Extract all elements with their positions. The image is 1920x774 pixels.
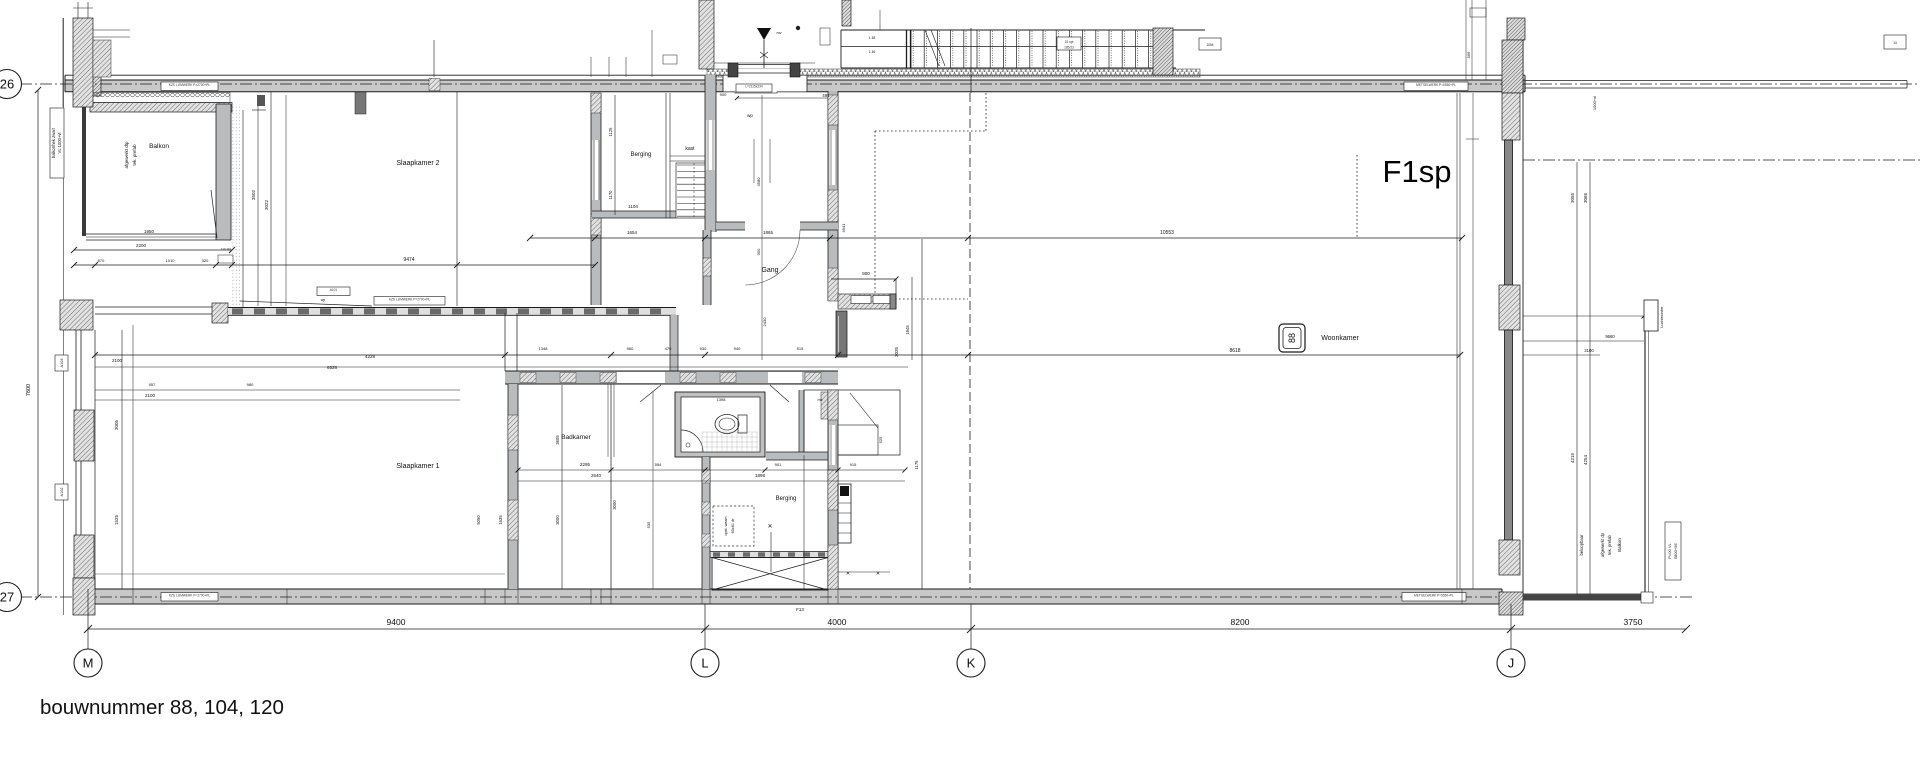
svg-text:4228: 4228: [365, 354, 376, 359]
svg-text:Slaapkamer 1: Slaapkamer 1: [396, 463, 439, 470]
svg-text:wp: wp: [321, 298, 326, 302]
svg-text:1 48: 1 48: [869, 36, 876, 40]
svg-text:4000: 4000: [828, 617, 847, 627]
svg-text:bouwnummer 88, 104, 120: bouwnummer 88, 104, 120: [40, 696, 284, 719]
svg-text:Berging: Berging: [631, 152, 652, 158]
svg-text:J: J: [1508, 656, 1515, 671]
svg-text:1865: 1865: [763, 230, 774, 235]
svg-text:VL 1000+vl: VL 1000+vl: [57, 132, 62, 153]
svg-text:900: 900: [862, 271, 870, 276]
svg-text:✕: ✕: [846, 571, 850, 577]
svg-text:980: 980: [247, 382, 254, 387]
svg-text:2100: 2100: [112, 358, 123, 363]
svg-text:1054: 1054: [1206, 43, 1213, 47]
svg-text:1950: 1950: [144, 229, 155, 234]
svg-text:1348: 1348: [539, 346, 549, 351]
svg-text:3066: 3066: [1583, 192, 1588, 203]
svg-text:10553: 10553: [1160, 230, 1174, 236]
svg-text:mk: mk: [817, 398, 822, 402]
svg-text:3502: 3502: [251, 189, 256, 200]
svg-text:3055: 3055: [1570, 192, 1575, 203]
svg-text:110 110: 110 110: [221, 247, 232, 251]
svg-text:1 46: 1 46: [869, 50, 876, 54]
svg-text:3000: 3000: [612, 500, 617, 510]
svg-text:opst. wasm: opst. wasm: [724, 516, 728, 535]
svg-text:915: 915: [850, 462, 857, 467]
svg-text:900: 900: [720, 92, 727, 97]
svg-text:F13: F13: [796, 607, 804, 612]
svg-text:1170: 1170: [608, 190, 613, 200]
svg-text:8618: 8618: [1229, 348, 1240, 354]
svg-text:METSELWERK P=5550+PL: METSELWERK P=5550+PL: [1416, 83, 1456, 87]
svg-text:tek. prefab: tek. prefab: [1607, 534, 1612, 554]
svg-text:470: 470: [665, 346, 672, 351]
svg-text:tek. prefab: tek. prefab: [132, 144, 137, 166]
svg-text:320: 320: [202, 258, 209, 263]
svg-text:Gang: Gang: [761, 267, 778, 274]
svg-text:6528: 6528: [327, 365, 338, 370]
svg-text:2200: 2200: [136, 243, 147, 248]
svg-text:915: 915: [797, 346, 804, 351]
svg-text:535: 535: [646, 521, 651, 528]
svg-text:Badkamer: Badkamer: [561, 434, 591, 441]
svg-text:3000: 3000: [555, 515, 560, 525]
svg-text:5800+5E: 5800+5E: [1673, 543, 1678, 559]
svg-text:Luchtrooster: Luchtrooster: [1660, 306, 1664, 328]
svg-text:2430: 2430: [762, 317, 767, 327]
svg-text:wp: wp: [747, 113, 753, 118]
svg-text:✕: ✕: [876, 571, 880, 577]
svg-text:88: 88: [1287, 333, 1297, 343]
svg-text:afgewerkt dtp: afgewerkt dtp: [124, 141, 129, 169]
svg-text:554: 554: [655, 462, 662, 467]
svg-text:Berging: Berging: [776, 496, 797, 502]
svg-text:P=00 VL: P=00 VL: [1667, 543, 1672, 559]
svg-text:✕: ✕: [767, 524, 772, 530]
svg-text:525: 525: [878, 436, 883, 443]
svg-text:901: 901: [775, 462, 782, 467]
svg-text:2640: 2640: [591, 473, 602, 478]
svg-text:15 opt: 15 opt: [1065, 40, 1074, 44]
svg-text:Slaapkamer 2: Slaapkamer 2: [396, 160, 439, 167]
svg-text:mv: mv: [776, 31, 781, 35]
svg-text:F1sp: F1sp: [1383, 154, 1452, 189]
svg-text:3035: 3035: [894, 346, 899, 357]
svg-text:kast: kast: [685, 146, 695, 152]
svg-text:Balkon: Balkon: [1617, 538, 1622, 552]
svg-text:8200: 8200: [1231, 617, 1250, 627]
svg-text:1945: 1945: [905, 325, 910, 335]
svg-text:beloopbaar: beloopbaar: [1579, 534, 1584, 556]
svg-text:957: 957: [149, 382, 156, 387]
svg-text:960: 960: [627, 346, 634, 351]
svg-text:60x61 dr: 60x61 dr: [731, 518, 735, 534]
svg-text:1654: 1654: [627, 230, 638, 235]
svg-text:A103: A103: [60, 359, 64, 368]
svg-text:185/23: 185/23: [1064, 45, 1074, 49]
svg-text:1125: 1125: [608, 127, 613, 137]
svg-text:M: M: [83, 656, 94, 671]
svg-text:9400: 9400: [387, 617, 406, 627]
svg-text:491: 491: [822, 93, 830, 98]
svg-text:Balkon: Balkon: [149, 143, 169, 150]
svg-text:KZS LIJMWERK P=2700+PL: KZS LIJMWERK P=2700+PL: [389, 297, 431, 301]
svg-text:1000+vl: 1000+vl: [1592, 96, 1597, 110]
svg-text:3605: 3605: [555, 435, 560, 445]
svg-text:2295: 2295: [580, 462, 591, 467]
svg-text:1010: 1010: [166, 258, 176, 263]
svg-text:balkonhek zwart: balkonhek zwart: [51, 127, 56, 158]
svg-text:3005: 3005: [114, 419, 119, 430]
svg-text:870: 870: [98, 258, 105, 263]
svg-text:1525: 1525: [114, 514, 119, 525]
svg-text:14: 14: [1893, 41, 1897, 45]
svg-text:1175: 1175: [914, 460, 919, 470]
svg-text:9474: 9474: [403, 257, 414, 263]
svg-text:KZS LIJMWERK P=2700+PL: KZS LIJMWERK P=2700+PL: [169, 83, 211, 87]
svg-text:afgewerkt dp: afgewerkt dp: [1600, 532, 1605, 557]
svg-text:Woonkamer: Woonkamer: [1321, 335, 1359, 342]
svg-text:4215: 4215: [1570, 452, 1575, 463]
svg-text:L: L: [701, 656, 708, 671]
svg-text:2100: 2100: [1584, 348, 1594, 353]
svg-text:3580: 3580: [756, 177, 761, 187]
svg-text:3022: 3022: [264, 199, 269, 210]
svg-text:1635: 1635: [498, 515, 503, 525]
svg-text:4254: 4254: [1583, 454, 1588, 465]
svg-text:3750: 3750: [1624, 617, 1643, 627]
svg-text:K: K: [967, 656, 976, 671]
svg-text:A102: A102: [60, 488, 64, 497]
svg-text:7800: 7800: [26, 384, 32, 396]
svg-text:1104: 1104: [628, 204, 638, 209]
svg-text:27: 27: [0, 590, 14, 605]
svg-text:KZS LIJMWERK P=2700+PL: KZS LIJMWERK P=2700+PL: [169, 593, 211, 597]
svg-text:940: 940: [734, 346, 741, 351]
svg-text:A101: A101: [330, 288, 338, 292]
svg-text:1398: 1398: [717, 397, 727, 402]
svg-text:1898: 1898: [755, 473, 766, 478]
svg-text:METSELWERK P=5550+PL: METSELWERK P=5550+PL: [1414, 593, 1454, 597]
svg-text:26: 26: [0, 77, 14, 92]
svg-text:930: 930: [700, 346, 707, 351]
svg-text:9660: 9660: [1605, 334, 1615, 339]
svg-text:5050: 5050: [476, 515, 481, 525]
svg-text:4941: 4941: [841, 223, 846, 233]
svg-text:2100: 2100: [145, 393, 156, 398]
svg-text:L=2115x234: L=2115x234: [745, 85, 763, 89]
svg-text:566: 566: [1466, 51, 1471, 58]
svg-text:950: 950: [756, 248, 761, 255]
